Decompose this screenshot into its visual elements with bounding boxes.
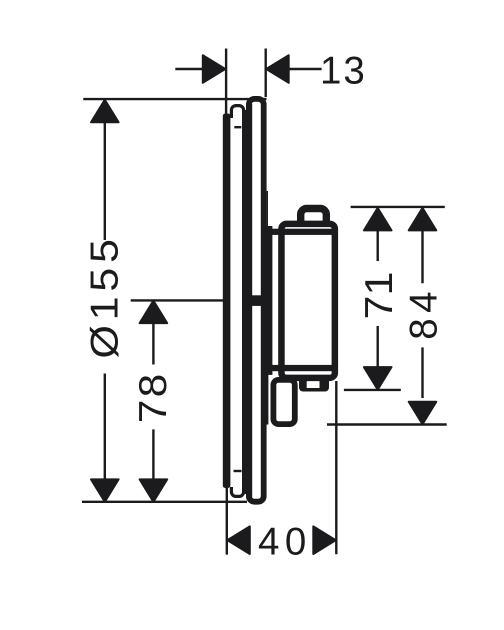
svg-text:71: 71 <box>357 272 400 320</box>
svg-text:78: 78 <box>131 372 175 424</box>
svg-text:Ø155: Ø155 <box>82 234 125 358</box>
svg-text:13: 13 <box>320 49 367 92</box>
svg-text:40: 40 <box>258 521 312 564</box>
svg-text:84: 84 <box>403 286 446 340</box>
